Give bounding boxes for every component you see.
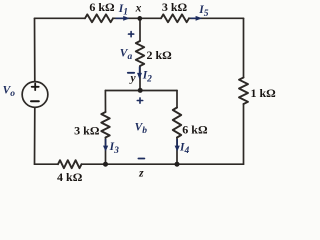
wire inner right branch upper [176,91,178,108]
wire mid rail [105,90,177,92]
plus sign Vb [137,98,142,103]
junction dot bottom right (6k branch) [175,162,180,167]
wire right rail upper [243,18,245,77]
minus sign Vb [138,158,144,160]
svg-text:4 kΩ: 4 kΩ [57,170,83,183]
svg-text:3 kΩ: 3 kΩ [74,124,100,138]
arrow I1 [116,16,130,21]
plus sign Va [129,32,134,37]
svg-text:2 kΩ: 2 kΩ [147,48,173,62]
minus sign Va [128,72,134,74]
resistor R 1k right [239,78,248,105]
voltage source Vo circle [22,82,48,108]
wire top rail left [35,17,86,19]
wire inner left branch lower [105,138,107,165]
svg-text:1 kΩ: 1 kΩ [251,86,277,100]
arrow I4 [175,139,180,152]
junction dot bottom left (3k branch) [103,162,108,167]
wire bottom rail left [35,163,59,165]
resistor R 3k inner left [101,112,109,138]
wire inner right branch lower [176,138,178,165]
svg-text:x: x [135,2,142,14]
svg-text:z: z [138,167,144,179]
wire right rail lower [243,104,245,164]
resistor R 2k middle [136,41,144,66]
resistor R 6k top [85,14,113,22]
wire bottom rail right [82,163,244,165]
wire top rail right [189,17,244,19]
wire left rail lower [34,107,36,164]
arrow I2 [137,67,142,80]
wire inner left branch upper [104,91,106,113]
resistor R 6k inner right [173,108,181,138]
arrow I5 [191,16,203,21]
node x junction dot [137,16,142,21]
svg-text:6 kΩ: 6 kΩ [182,122,208,136]
wire left rail upper [34,18,36,81]
wire top rail middle (node x segment) [113,17,161,19]
minus sign inside source [31,100,39,102]
resistor R 4k bottom [58,160,82,168]
svg-text:3 kΩ: 3 kΩ [162,0,188,14]
node y junction dot [138,88,143,93]
svg-text:y: y [128,73,136,85]
resistor R 3k top [161,14,189,22]
arrow I3 [103,139,108,152]
wire middle branch from node x [139,18,141,41]
svg-text:6 kΩ: 6 kΩ [89,0,115,14]
wire middle branch to node y [139,66,141,91]
plus sign inside source [32,84,39,91]
